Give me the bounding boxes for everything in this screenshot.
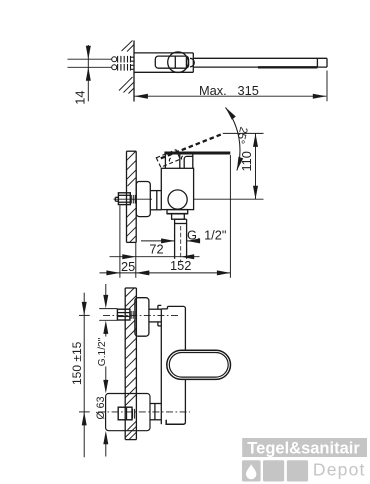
svg-text:110: 110 (239, 151, 254, 171)
svg-text:G.1/2": G.1/2" (97, 337, 108, 366)
svg-text:315: 315 (238, 83, 259, 98)
svg-text:Tegel&sanitair: Tegel&sanitair (247, 440, 360, 458)
svg-text:Max.: Max. (199, 83, 227, 98)
svg-text:14: 14 (73, 91, 88, 105)
svg-text:G. 1/2": G. 1/2" (187, 228, 226, 243)
svg-text:150 ±15: 150 ±15 (70, 341, 84, 385)
svg-text:Depot: Depot (313, 459, 366, 479)
svg-text:152: 152 (170, 258, 191, 273)
svg-text:72: 72 (149, 242, 163, 257)
svg-text:25: 25 (121, 259, 135, 274)
svg-text:Ø 63: Ø 63 (95, 396, 107, 419)
svg-text:25°: 25° (234, 125, 250, 144)
